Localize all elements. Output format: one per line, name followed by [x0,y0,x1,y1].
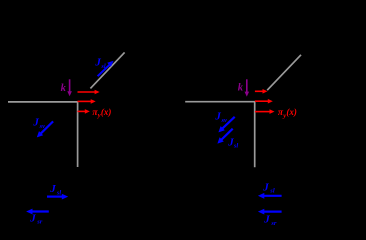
svg-text:sr: sr [270,220,277,227]
interior current arrow B (right diagram) [217,129,238,150]
surface current Jsl along left diagonal [94,56,113,76]
incident wave vector k (right) [238,79,249,96]
svg-text:J: J [29,212,36,224]
bottom current arrow D (right diagram, pointing left) [258,209,282,227]
left shadow-boundary diagonal [90,52,124,88]
svg-text:sl: sl [56,189,62,196]
svg-text:sv: sv [39,123,46,130]
svg-text:J: J [94,56,101,68]
right half-plane surface (horizontal face + vertical edge face) [185,102,255,168]
bottom face current arrow (left diagram, pointing right) [47,183,68,200]
Hertz potential arrows (left): arrow 1 [78,90,112,120]
left half-plane surface (horizontal face + vertical edge face) [8,102,78,167]
Hertz potential arrows (right): arrow 1 [255,89,297,119]
bottom current arrow C (right diagram, pointing left) [258,181,282,198]
bottom face current arrow (left diagram, pointing left) [26,209,49,226]
svg-text:k: k [238,83,244,94]
interior current arrow A (right diagram) [214,111,234,133]
svg-text:(x): (x) [286,107,297,117]
svg-text:sl: sl [100,63,106,70]
svg-text:J: J [262,181,269,193]
Hertz potential arrows (right): arrow 3 [255,111,270,113]
svg-text:J: J [263,214,270,226]
svg-text:sr: sr [36,219,43,226]
Hertz potential arrows (left): arrow 2 [78,100,92,102]
incident wave vector k (left) [61,79,72,96]
interior current arrow Jsv (left) [32,116,53,137]
svg-text:sl: sl [269,188,275,195]
svg-text:sl: sl [233,143,239,150]
svg-text:J: J [32,116,39,128]
svg-text:J: J [49,183,56,195]
Hertz potential arrows (right): arrow 2 [255,100,269,102]
Hertz potential arrows (left): arrow 3 [78,110,86,112]
svg-text:(x): (x) [101,107,112,117]
svg-text:J: J [214,111,221,123]
svg-text:k: k [61,83,67,94]
svg-text:sv: sv [221,117,228,124]
right shadow-boundary diagonal [267,55,301,90]
